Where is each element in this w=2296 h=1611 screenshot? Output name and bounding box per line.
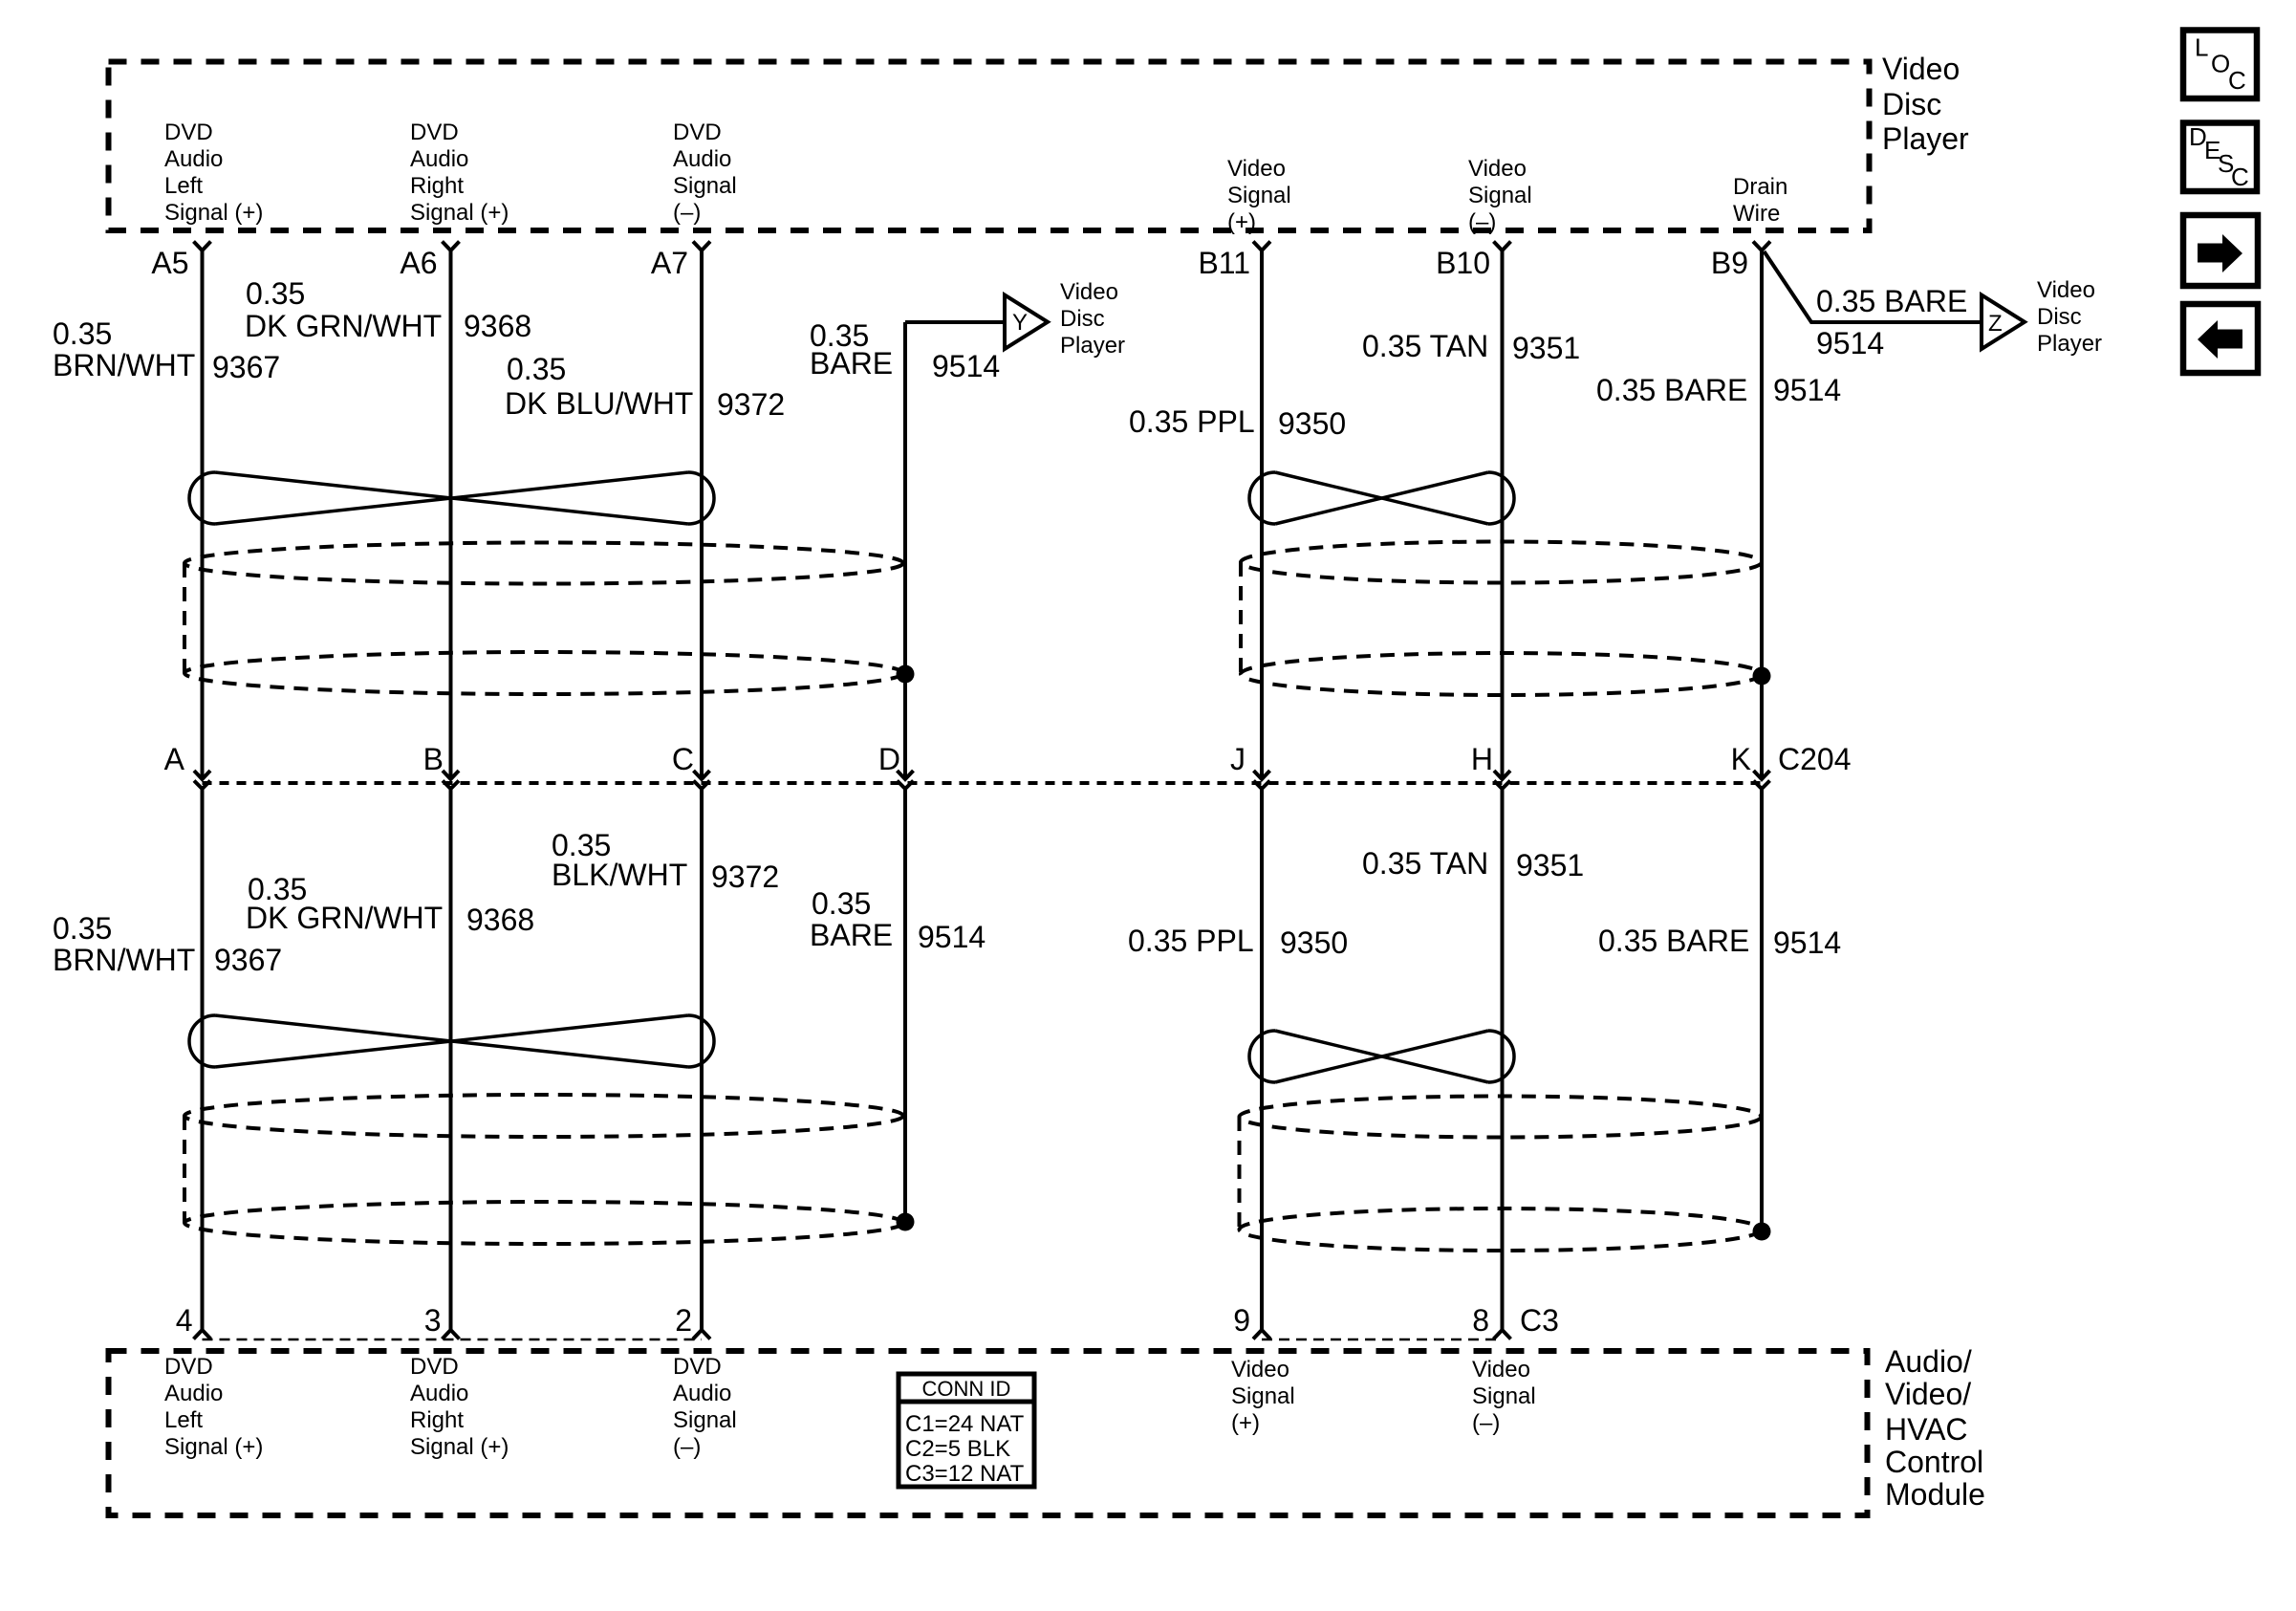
svg-text:DVD: DVD <box>673 1354 722 1380</box>
svg-text:0.35 BARE: 0.35 BARE <box>1816 284 1967 318</box>
svg-text:Z: Z <box>1988 311 2003 337</box>
svg-text:8: 8 <box>1472 1303 1489 1338</box>
C204 pin K fork <box>1754 781 1770 790</box>
junction dot shield to wire D (top half) <box>897 665 915 684</box>
C204 pin H arrow <box>1494 771 1510 779</box>
svg-text:C3=12 NAT: C3=12 NAT <box>905 1461 1025 1487</box>
svg-text:Audio: Audio <box>164 1381 223 1406</box>
svg-text:Right: Right <box>410 1407 464 1433</box>
svg-text:9372: 9372 <box>711 860 779 894</box>
wire label 0.35 BRN/WHT (bottom) <box>53 911 195 977</box>
svg-text:A: A <box>164 742 185 776</box>
pin label Video Signal (+) (bottom box) <box>1231 1357 1295 1436</box>
svg-text:2: 2 <box>675 1303 692 1338</box>
svg-text:DK GRN/WHT: DK GRN/WHT <box>246 901 443 935</box>
pin label DVD Audio Signal (-) (bottom box) <box>673 1354 737 1460</box>
svg-text:(–): (–) <box>673 1434 701 1460</box>
svg-text:Signal: Signal <box>1468 183 1532 208</box>
svg-text:0.35 PPL: 0.35 PPL <box>1128 924 1254 958</box>
svg-text:0.35: 0.35 <box>53 316 112 351</box>
svg-text:9350: 9350 <box>1280 925 1348 960</box>
C204 pin B fork <box>443 781 459 790</box>
svg-text:BARE: BARE <box>810 346 893 381</box>
svg-text:CONN ID: CONN ID <box>922 1377 1011 1401</box>
shield symbol video (top half) <box>1241 542 1762 696</box>
svg-text:BLK/WHT: BLK/WHT <box>552 858 687 892</box>
svg-text:DVD: DVD <box>673 120 722 145</box>
svg-text:0.35 PPL: 0.35 PPL <box>1129 404 1255 439</box>
off-page Z destination label Video Disc Player <box>2037 277 2102 357</box>
svg-text:Signal: Signal <box>673 173 737 199</box>
pin B10 fork <box>1494 242 1511 251</box>
pin label Video Signal (+) (top box) <box>1227 156 1291 235</box>
svg-text:Signal (+): Signal (+) <box>164 200 263 226</box>
Video Disc Player component box (top, dashed) <box>109 62 1870 231</box>
svg-text:0.35: 0.35 <box>812 886 871 921</box>
wire B11 to J (0.35 PPL 9350) <box>1260 250 1264 776</box>
Audio/Video/HVAC Control Module box name <box>1885 1344 1985 1512</box>
svg-text:9514: 9514 <box>932 349 1000 383</box>
C204 pin C arrow <box>694 771 710 779</box>
pin A5 fork <box>194 242 211 251</box>
svg-text:9367: 9367 <box>212 350 280 384</box>
svg-text:0.35: 0.35 <box>53 911 112 946</box>
pin label DVD Audio Right Signal (+) (bottom box) <box>410 1354 509 1460</box>
svg-text:BRN/WHT: BRN/WHT <box>53 348 195 382</box>
svg-text:C2=5 BLK: C2=5 BLK <box>905 1436 1010 1462</box>
svg-text:DK BLU/WHT: DK BLU/WHT <box>505 386 693 421</box>
svg-text:C204: C204 <box>1778 742 1852 776</box>
pin 9 fork <box>1253 1330 1270 1339</box>
svg-text:Signal: Signal <box>1231 1383 1295 1409</box>
C204 pin D fork <box>898 781 914 790</box>
svg-text:Video/: Video/ <box>1885 1377 1971 1411</box>
shield symbol audio (bottom half) <box>184 1095 903 1244</box>
pin 2 fork <box>693 1330 710 1339</box>
svg-text:B11: B11 <box>1198 246 1250 280</box>
svg-text:0.35 BARE: 0.35 BARE <box>1596 373 1747 407</box>
wire K drain bottom <box>1760 789 1764 1231</box>
C204 pin K arrow <box>1754 771 1770 779</box>
svg-text:B: B <box>423 742 444 776</box>
pin label DVD Audio Right Signal (+) (top box) <box>410 120 509 226</box>
svg-text:Video: Video <box>1231 1357 1289 1382</box>
svg-text:Video: Video <box>1468 156 1527 182</box>
svg-text:(–): (–) <box>1468 209 1496 235</box>
svg-text:C1=24 NAT: C1=24 NAT <box>905 1411 1025 1437</box>
svg-text:0.35: 0.35 <box>246 276 305 311</box>
pin A7 fork <box>693 242 710 251</box>
wire A to 4 (0.35 BRN/WHT 9367) <box>201 789 205 1330</box>
right-arrow legend box <box>2183 215 2258 286</box>
svg-text:A7: A7 <box>651 246 688 280</box>
pin A6 fork <box>443 242 460 251</box>
wire label 0.35 BARE (bottom, drain D) <box>810 886 893 952</box>
junction dot shield to wire K (top half) <box>1753 667 1771 686</box>
svg-text:HVAC: HVAC <box>1885 1412 1968 1447</box>
wire C to 2 (0.35 BLK/WHT 9372) <box>700 789 704 1330</box>
pin label DVD Audio Signal (-) (top box) <box>673 120 737 226</box>
wire label 0.35 DK GRN/WHT (bottom) <box>246 872 443 935</box>
svg-text:3: 3 <box>424 1303 442 1338</box>
svg-text:9514: 9514 <box>1773 925 1841 960</box>
shield symbol video (bottom half) <box>1240 1097 1762 1252</box>
svg-text:Right: Right <box>410 173 464 199</box>
C204 pin J arrow <box>1254 771 1270 779</box>
svg-text:Audio: Audio <box>410 146 468 172</box>
svg-text:DVD: DVD <box>410 1354 459 1380</box>
svg-text:Audio: Audio <box>164 146 223 172</box>
svg-text:Audio: Audio <box>410 1381 468 1406</box>
svg-text:9372: 9372 <box>717 387 785 422</box>
wire A5 to A (0.35 BRN/WHT 9367) <box>201 250 205 776</box>
svg-text:Y: Y <box>1012 310 1028 336</box>
svg-text:9: 9 <box>1233 1303 1250 1338</box>
C204 pin D arrow <box>898 771 914 779</box>
junction dot shield to wire D (bottom half) <box>897 1213 915 1231</box>
shield symbol audio (top half) <box>184 543 903 695</box>
DESC legend box <box>2183 123 2257 192</box>
wire B10 to H (0.35 TAN 9351) <box>1501 250 1505 776</box>
svg-text:Left: Left <box>164 173 203 199</box>
wire label 0.35 BRN/WHT (top) <box>53 316 195 382</box>
wire D drain (0.35 BARE 9514) top <box>903 322 907 776</box>
svg-text:Audio: Audio <box>673 146 731 172</box>
svg-text:(–): (–) <box>1472 1410 1500 1436</box>
svg-text:Signal: Signal <box>673 1407 737 1433</box>
wire J to 9 (0.35 PPL 9350) <box>1260 789 1264 1330</box>
svg-text:Player: Player <box>1882 121 1969 156</box>
svg-text:Video: Video <box>1060 279 1118 305</box>
svg-text:Video: Video <box>1472 1357 1530 1382</box>
svg-text:BARE: BARE <box>810 918 893 952</box>
off-page Y destination label Video Disc Player <box>1060 279 1125 359</box>
wire label 0.35 BLK/WHT (bottom) <box>552 828 687 892</box>
LOC letters <box>2195 33 2246 96</box>
svg-text:9514: 9514 <box>918 920 986 954</box>
pin label DVD Audio Left Signal (+) (bottom box) <box>164 1354 263 1460</box>
svg-text:Disc: Disc <box>2037 304 2082 330</box>
svg-text:C: C <box>2228 66 2246 95</box>
svg-text:Drain: Drain <box>1733 174 1787 200</box>
right-arrow icon <box>2198 234 2242 272</box>
pin label Drain Wire (top box) <box>1733 174 1787 227</box>
pin 3 fork <box>443 1330 460 1339</box>
wire A7 to C (0.35 DK BLU/WHT 9372) <box>700 250 704 776</box>
pin label Video Signal (-) (top box) <box>1468 156 1532 235</box>
svg-text:A6: A6 <box>400 246 437 280</box>
pin B9 fork <box>1753 242 1770 251</box>
svg-text:9351: 9351 <box>1516 848 1584 882</box>
left-arrow legend box <box>2183 304 2258 373</box>
pin 4 fork <box>194 1330 211 1339</box>
svg-text:L: L <box>2195 33 2208 62</box>
pin 8 fork <box>1494 1330 1511 1339</box>
svg-text:0.35: 0.35 <box>507 352 566 386</box>
pin B11 fork <box>1253 242 1270 251</box>
svg-text:BRN/WHT: BRN/WHT <box>53 943 195 977</box>
svg-text:Video: Video <box>2037 277 2095 303</box>
svg-text:DVD: DVD <box>164 120 213 145</box>
svg-text:B10: B10 <box>1436 246 1490 280</box>
wire B to 3 (0.35 DK GRN/WHT 9368) <box>449 789 453 1330</box>
LOC legend box <box>2183 31 2257 99</box>
svg-text:Audio: Audio <box>673 1381 731 1406</box>
svg-text:B9: B9 <box>1711 246 1748 280</box>
twisted pair symbol video (bottom half) <box>1249 1031 1514 1082</box>
Video Disc Player box name <box>1882 52 1969 156</box>
DESC letters <box>2189 122 2249 191</box>
svg-text:Control: Control <box>1885 1445 1983 1479</box>
svg-text:DVD: DVD <box>410 120 459 145</box>
svg-text:(+): (+) <box>1227 209 1256 235</box>
svg-text:Player: Player <box>2037 331 2102 357</box>
wire label 0.35 BARE (top, drain D) <box>810 318 893 381</box>
svg-text:Signal (+): Signal (+) <box>410 1434 509 1460</box>
svg-text:9514: 9514 <box>1773 373 1841 407</box>
svg-text:K: K <box>1731 742 1751 776</box>
svg-text:H: H <box>1471 742 1493 776</box>
wire label 0.35 DK BLU/WHT (top) <box>505 352 693 421</box>
C204 pin B arrow <box>443 771 459 779</box>
pin label DVD Audio Left Signal (+) (top box) <box>164 120 263 226</box>
C204 pin A fork <box>194 781 210 790</box>
svg-text:Video: Video <box>1882 52 1960 86</box>
off-page connector Y triangle <box>1005 295 1048 350</box>
svg-text:DK GRN/WHT: DK GRN/WHT <box>245 309 442 343</box>
svg-text:(+): (+) <box>1231 1410 1260 1436</box>
connector C3 dashed line (video side) <box>1262 1339 1503 1341</box>
wire H to 8 (0.35 TAN 9351) <box>1501 789 1505 1330</box>
connector C204 dashed line <box>203 781 1763 785</box>
svg-text:9367: 9367 <box>214 943 282 977</box>
svg-text:C: C <box>2231 163 2249 191</box>
connector C3 dashed line (audio side) <box>203 1339 703 1341</box>
pin label Video Signal (-) (bottom box) <box>1472 1357 1536 1436</box>
svg-text:9350: 9350 <box>1278 406 1346 441</box>
svg-text:9368: 9368 <box>464 309 531 343</box>
CONN ID table box <box>899 1374 1034 1487</box>
wire D drain bottom <box>903 789 907 1222</box>
wire B9 drain to K (0.35 BARE 9514) <box>1760 250 1764 776</box>
branch wire B9 to off-page Z <box>1765 251 1982 322</box>
svg-text:Signal (+): Signal (+) <box>164 1434 263 1460</box>
C204 pin A arrow <box>194 771 210 779</box>
svg-text:Player: Player <box>1060 333 1125 359</box>
wire A6 to B (0.35 DK GRN/WHT 9368) <box>449 250 453 776</box>
svg-text:9514: 9514 <box>1816 326 1884 360</box>
svg-text:(–): (–) <box>673 200 701 226</box>
wire to off-page Y (0.35 BARE 9514 shield drain) <box>905 320 1005 324</box>
svg-text:0.35 TAN: 0.35 TAN <box>1362 329 1488 363</box>
svg-text:Disc: Disc <box>1060 306 1105 332</box>
svg-text:0.35 TAN: 0.35 TAN <box>1362 846 1488 881</box>
svg-text:9351: 9351 <box>1512 331 1580 365</box>
svg-text:DVD: DVD <box>164 1354 213 1380</box>
svg-text:Module: Module <box>1885 1477 1985 1512</box>
svg-text:4: 4 <box>176 1303 193 1338</box>
junction dot shield to wire K (bottom half) <box>1753 1223 1771 1241</box>
svg-text:Left: Left <box>164 1407 203 1433</box>
Audio/Video/HVAC Control Module component box (bottom, dashed) <box>109 1351 1868 1515</box>
svg-text:Video: Video <box>1227 156 1286 182</box>
svg-text:9368: 9368 <box>466 903 534 937</box>
svg-text:C: C <box>672 742 694 776</box>
svg-text:0.35 BARE: 0.35 BARE <box>1598 924 1749 958</box>
svg-text:Signal: Signal <box>1472 1383 1536 1409</box>
svg-text:Disc: Disc <box>1882 87 1941 121</box>
svg-text:Signal (+): Signal (+) <box>410 200 509 226</box>
C204 pin J fork <box>1254 781 1270 790</box>
svg-text:A5: A5 <box>151 246 188 280</box>
twisted pair symbol video (top half) <box>1249 472 1514 524</box>
wire label 0.35 DK GRN/WHT (top) <box>245 276 442 343</box>
svg-text:Audio/: Audio/ <box>1885 1344 1972 1379</box>
left-arrow icon <box>2198 320 2242 359</box>
off-page connector Z triangle <box>1982 295 2025 350</box>
svg-text:J: J <box>1230 742 1245 776</box>
svg-text:Wire: Wire <box>1733 201 1780 227</box>
twisted pair symbol audio (bottom half) <box>189 1015 714 1067</box>
C204 pin H fork <box>1494 781 1510 790</box>
svg-text:C3: C3 <box>1520 1303 1559 1338</box>
twisted pair symbol audio (top half) <box>189 472 714 524</box>
svg-text:Signal: Signal <box>1227 183 1291 208</box>
C204 pin C fork <box>694 781 710 790</box>
svg-text:D: D <box>878 742 900 776</box>
